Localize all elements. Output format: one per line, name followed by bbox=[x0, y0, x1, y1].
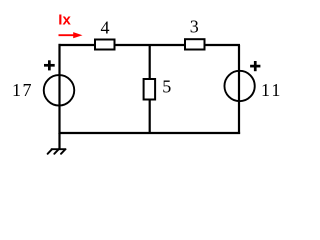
resistor 5 bbox=[144, 79, 156, 100]
voltage source V1 circle bbox=[44, 75, 75, 106]
resistor 3 bbox=[185, 39, 205, 49]
ground stem wire bbox=[58, 133, 60, 149]
svg-text:17: 17 bbox=[12, 80, 33, 100]
wire left vertical bbox=[58, 44, 60, 134]
wire middle vertical bbox=[149, 45, 151, 134]
svg-text:3: 3 bbox=[190, 17, 199, 37]
svg-text:Ix: Ix bbox=[58, 12, 71, 29]
svg-text:11: 11 bbox=[261, 80, 282, 100]
wire top horizontal bbox=[59, 44, 241, 46]
plus sign of V1 bbox=[44, 60, 55, 70]
ground symbol bbox=[48, 149, 66, 154]
wire bottom horizontal bbox=[59, 132, 241, 134]
voltage source V2 circle bbox=[224, 71, 254, 101]
svg-text:4: 4 bbox=[101, 18, 110, 38]
svg-text:5: 5 bbox=[162, 76, 171, 96]
current arrow bbox=[59, 34, 76, 36]
plus sign of V2 bbox=[250, 61, 260, 71]
wire right vertical bbox=[238, 45, 240, 134]
resistor 4 bbox=[95, 40, 115, 50]
